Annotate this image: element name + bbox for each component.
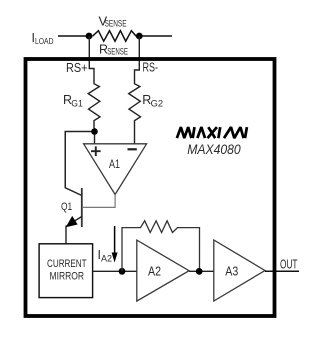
plus sign A1 — [91, 146, 101, 156]
wire feedback from node A to left — [65, 132, 91, 189]
wire current mirror to A2 — [93, 270, 137, 272]
svg-text:G2: G2 — [151, 98, 164, 108]
transistor Q1 base bar — [81, 188, 83, 227]
svg-text:Q1: Q1 — [61, 201, 72, 213]
svg-text:SENSE: SENSE — [107, 47, 128, 57]
Q1 emitter arrow — [67, 217, 77, 227]
resistor RG2 — [129, 81, 141, 144]
amplifier A2 — [137, 240, 189, 301]
amplifier A3 — [214, 240, 265, 301]
op-amp A1 — [84, 144, 147, 195]
IA2 arrow — [114, 226, 116, 254]
svg-text:MAX4080: MAX4080 — [187, 141, 241, 157]
resistor RSENSE — [93, 31, 137, 42]
node A — [91, 128, 98, 135]
device box MAX4080 — [26, 59, 275, 316]
wire node A to A1 + input — [94, 128, 96, 144]
A2 feedback loop with resistor — [122, 221, 200, 272]
transistor Q1 emitter — [66, 217, 82, 244]
svg-text:A3: A3 — [225, 264, 238, 278]
svg-text:SENSE: SENSE — [105, 19, 127, 29]
wire A1 output stub — [83, 195, 115, 208]
svg-text:A2: A2 — [148, 264, 161, 278]
svg-text:RS-: RS- — [143, 61, 159, 75]
svg-text:G1: G1 — [71, 98, 83, 108]
wire OUT — [265, 270, 299, 272]
svg-text:A1: A1 — [109, 159, 120, 171]
svg-text:RS+: RS+ — [66, 61, 88, 75]
minus sign A1 — [128, 148, 137, 150]
wire I_LOAD to left node — [58, 35, 87, 37]
svg-text:A2: A2 — [101, 253, 112, 263]
node left of RSENSE — [86, 33, 93, 40]
wire A2 out to A3 in — [189, 270, 214, 272]
svg-text:MIRROR: MIRROR — [50, 271, 85, 283]
svg-text:CURRENT: CURRENT — [47, 258, 87, 270]
node B — [119, 268, 126, 275]
Maxim logo — [177, 127, 247, 138]
wire right node to end — [139, 35, 172, 37]
current mirror box — [39, 244, 93, 298]
wire RS+ drop — [89, 36, 94, 81]
transistor Q1 collector — [65, 132, 82, 196]
svg-text:OUT: OUT — [280, 257, 298, 271]
wire RS- drop — [135, 36, 140, 81]
resistor RG1 — [88, 81, 100, 129]
svg-text:LOAD: LOAD — [35, 36, 54, 46]
node C — [196, 268, 203, 275]
node right of RSENSE — [136, 33, 143, 40]
